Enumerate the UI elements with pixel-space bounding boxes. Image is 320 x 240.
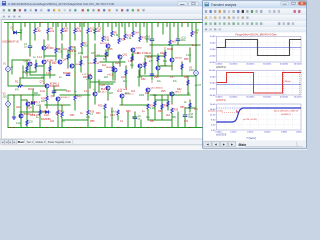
- svg-text:KD29: KD29: [28, 88, 35, 91]
- svg-text:0.800s: 0.800s: [281, 132, 287, 134]
- wire col119: [118, 23, 120, 39]
- transistor Q16: [106, 86, 110, 90]
- wire stub: [157, 23, 159, 27]
- wire R6 feed: [55, 23, 57, 49]
- wire: [189, 48, 191, 62]
- wire bias a: [12, 59, 30, 61]
- wire col170: [169, 23, 171, 41]
- svg-text:220: 220: [50, 120, 55, 123]
- wire C1 bottom: [29, 48, 31, 56]
- wire bias b: [11, 60, 13, 74]
- wire: [36, 65, 44, 67]
- transistor Q14: [138, 64, 142, 68]
- wire link14-21: [14, 94, 21, 96]
- svg-text:10.000m: 10.000m: [229, 64, 237, 66]
- svg-text:6mA: 6mA: [134, 52, 139, 55]
- wire col21 low: [20, 95, 22, 128]
- capacitor CF3: [150, 74, 154, 76]
- svg-text:2N5401: 2N5401: [175, 57, 183, 59]
- wire R7 feed: [81, 23, 83, 43]
- wire col141 low: [140, 120, 142, 128]
- wire stub: [107, 23, 109, 27]
- wire R7 out: [81, 48, 83, 55]
- wire Q7 e: [46, 88, 48, 96]
- wire stub 33: [32, 90, 34, 95]
- svg-text:R36: R36: [184, 76, 189, 79]
- transient analysis window frame: [203, 1, 307, 148]
- transistor Q2: [42, 46, 46, 50]
- wire R33 out: [171, 114, 173, 128]
- resistor R29: [169, 40, 171, 45]
- transient toolbar row 3: [203, 21, 306, 27]
- capacitor C1: [28, 46, 32, 48]
- wire col155 low2: [154, 108, 156, 120]
- svg-text:+OUT: +OUT: [195, 84, 202, 87]
- schematic canvas: [2, 20, 203, 145]
- svg-text:(t=774, 4.132): (t=774, 4.132): [243, 118, 257, 121]
- svg-text:Freqq=1kHz=100.0%,_BW RG=5 Ohm: Freqq=1kHz=100.0%,_BW RG=5 Ohm: [235, 33, 276, 36]
- main toolbar row 1: [0, 7, 307, 14]
- wire R19 out: [87, 116, 89, 128]
- svg-text:►: ►: [13, 141, 16, 144]
- transistor Q15: [170, 58, 174, 62]
- wire C16 b: [151, 41, 153, 45]
- resistor RF5: [80, 60, 82, 66]
- wire V5 out: [195, 75, 197, 90]
- wire Q19 e: [171, 96, 173, 104]
- svg-text:2k2: 2k2: [166, 114, 171, 117]
- wire: [100, 61, 120, 63]
- transistor QL1: [26, 102, 30, 106]
- wire C10 b: [184, 117, 186, 128]
- svg-text:1k2: 1k2: [63, 48, 68, 51]
- svg-text:4.13: 4.13: [110, 114, 115, 117]
- svg-text:v(OUT)/5: v(OUT)/5: [216, 134, 227, 137]
- wire R13 feed: [94, 23, 96, 29]
- svg-text:►: ►: [222, 143, 225, 147]
- resistor RL4: [189, 103, 191, 109]
- resistor RF16: [154, 101, 156, 107]
- wire R17 out: [61, 118, 63, 128]
- wire stub: [173, 23, 175, 27]
- resistor RF11: [144, 62, 146, 68]
- wire R18 out: [74, 101, 76, 111]
- svg-text:60448: 60448: [136, 47, 143, 49]
- svg-text:Main: Main: [239, 143, 247, 147]
- wire V1 feed: [7, 23, 9, 67]
- wire C11 a: [177, 23, 179, 39]
- svg-text:+C: +C: [187, 93, 190, 95]
- resistor R4: [47, 28, 49, 34]
- resistor RF10: [131, 56, 133, 61]
- svg-text:BU406_1: BU406_1: [31, 102, 41, 104]
- wire in vert: [19, 78, 21, 86]
- svg-text:►: ►: [230, 143, 233, 147]
- wire: [53, 86, 55, 96]
- svg-text:1mA: 1mA: [40, 90, 45, 93]
- voltage source V1: [6, 67, 11, 72]
- svg-text:+50: +50: [37, 31, 42, 33]
- wire mid i: [20, 77, 44, 79]
- resistor R28: [191, 31, 193, 36]
- svg-text:2N5: 2N5: [161, 90, 166, 93]
- wire low c: [150, 94, 190, 96]
- resistor RF13: [164, 52, 166, 57]
- wire C16 a: [151, 23, 153, 39]
- resistor RF9: [125, 70, 127, 76]
- wire mid f: [145, 55, 165, 57]
- wire: [125, 66, 127, 88]
- resistor R16: [57, 110, 59, 116]
- wire: [49, 62, 51, 78]
- svg-text:Main: Main: [18, 140, 25, 144]
- resistor R7: [81, 42, 83, 47]
- diode D3: [32, 102, 35, 105]
- resistor RF3: [49, 66, 51, 72]
- svg-text:0.22: 0.22: [44, 114, 49, 117]
- wire low d: [45, 104, 70, 106]
- wire R9 feed: [69, 23, 71, 47]
- wire Q16 e: [107, 90, 109, 100]
- svg-text:0.000: 0.000: [210, 49, 216, 51]
- wire col178 low: [177, 112, 179, 128]
- plot 1 box: [217, 36, 302, 62]
- wire R8 out: [74, 34, 76, 40]
- capacitor C9: [133, 117, 137, 119]
- wire: [22, 66, 24, 78]
- wire Q15 e: [171, 62, 173, 70]
- resistor RF1: [26, 66, 28, 72]
- wire R4 out: [47, 34, 49, 40]
- svg-text:R13: R13: [97, 27, 102, 30]
- svg-text:0.400s: 0.400s: [247, 132, 253, 134]
- svg-text:-5.000: -5.000: [209, 89, 216, 91]
- wire Q11 e: [94, 96, 96, 104]
- transistor QL2: [19, 114, 23, 118]
- wire stub: [135, 23, 137, 27]
- wire low h: [62, 119, 88, 121]
- resistor R23: [124, 34, 126, 39]
- resistor R33: [171, 108, 173, 114]
- wire stub: [143, 23, 145, 27]
- resistor RF17: [167, 101, 169, 107]
- transistor Q13: [113, 68, 117, 72]
- wire Q20 e: [89, 79, 91, 88]
- wire: [55, 53, 57, 60]
- wire col112 low: [111, 108, 113, 128]
- wire mid b: [30, 74, 55, 76]
- wire link21-27: [21, 99, 27, 101]
- wire: [74, 47, 76, 88]
- svg-text:1mA: 1mA: [16, 122, 21, 125]
- svg-text:220u: 220u: [181, 40, 187, 42]
- transistor Q21: [156, 66, 160, 70]
- svg-text:230: 230: [3, 96, 8, 99]
- wire mid h: [140, 75, 196, 77]
- svg-text:+C: +C: [190, 117, 193, 119]
- svg-text:BUL2: BUL2: [101, 88, 108, 91]
- svg-text:220: 220: [29, 122, 34, 124]
- wire Q21 c: [157, 56, 159, 66]
- svg-text:v(OUT1): v(OUT1): [216, 66, 226, 69]
- svg-text:100n: 100n: [78, 53, 84, 55]
- svg-text:0.1R: 0.1R: [150, 108, 155, 110]
- wire stub: [128, 23, 130, 27]
- wire R32 out: [147, 110, 149, 121]
- main app icon: [2, 1, 6, 5]
- wire: [112, 62, 114, 80]
- resistor R13: [94, 28, 96, 34]
- wire mid e: [100, 61, 125, 63]
- wire R12 out: [87, 34, 89, 40]
- wire: [23, 71, 36, 73]
- svg-text:-2.000: -2.000: [209, 55, 216, 57]
- wire: [164, 50, 166, 66]
- svg-text:20.00: 20.00: [210, 104, 216, 106]
- wire R10 feed: [61, 23, 63, 29]
- svg-text:4.13: 4.13: [46, 72, 51, 75]
- svg-text:40.000m: 40.000m: [280, 64, 288, 66]
- transistor Q17: [120, 94, 124, 98]
- wire V1 out: [7, 71, 9, 86]
- wire node IN: [8, 85, 20, 87]
- wire col21: [20, 23, 22, 41]
- capacitor CF1: [66, 74, 70, 76]
- wire: [167, 96, 169, 110]
- resistor R9: [69, 46, 71, 51]
- svg-text:R9 1k: R9 1k: [70, 50, 77, 53]
- wire stub: [39, 23, 41, 27]
- svg-text:R40: R40: [66, 90, 71, 93]
- wire bottom supply rail: [9, 127, 202, 129]
- main toolbar row 2: [0, 14, 307, 20]
- wire R31 out: [117, 116, 119, 121]
- wire Q15 c: [171, 45, 173, 58]
- svg-text:R42: R42: [177, 88, 182, 91]
- resistor R26: [132, 31, 134, 36]
- transistor Q3: [42, 60, 46, 64]
- wire stub: [121, 23, 123, 27]
- svg-text:R52: R52: [96, 112, 101, 115]
- wire col112: [111, 23, 113, 32]
- wire R17 feed: [61, 105, 63, 112]
- svg-text:2N5: 2N5: [108, 48, 113, 51]
- transient toolbar row 1: [203, 8, 306, 14]
- svg-text:R33: R33: [174, 110, 179, 112]
- wire stub: [65, 23, 67, 27]
- wire stub: [115, 23, 117, 27]
- wire R10 out: [61, 34, 63, 40]
- resistor RF4: [67, 54, 69, 59]
- plot 2 red cursor: [298, 70, 300, 95]
- wire R18 feed: [74, 88, 76, 95]
- svg-text:30.000m: 30.000m: [263, 64, 271, 66]
- transient toolbar row 4: [203, 27, 306, 32]
- wire: [154, 96, 156, 108]
- svg-text:KD2908S: KD2908S: [50, 86, 60, 88]
- resistor R14: [46, 96, 48, 102]
- svg-text:R35: R35: [184, 58, 189, 61]
- svg-text:5.000: 5.000: [210, 76, 216, 78]
- wire Q8 e: [107, 48, 109, 56]
- wire R4 feed: [47, 23, 49, 29]
- wire V2 bottom: [7, 106, 9, 127]
- resistor R24: [118, 38, 120, 43]
- wire: [94, 44, 96, 92]
- diode D1: [14, 31, 17, 34]
- resistor R10: [61, 28, 63, 34]
- wire Q14 e: [139, 68, 141, 76]
- svg-text:40.000m: 40.000m: [280, 97, 288, 99]
- transistor Q20: [88, 75, 92, 79]
- wire: [44, 55, 56, 57]
- wire C9 a: [134, 112, 136, 117]
- wire R16 out: [57, 116, 59, 128]
- svg-text:Power Supplies: Power Supplies: [48, 141, 65, 144]
- svg-text:R4 6: R4 6: [77, 97, 83, 99]
- svg-text:2.000: 2.000: [210, 43, 216, 45]
- resistor R1: [18, 85, 24, 87]
- capacitor C16: [150, 39, 154, 41]
- wire: [131, 54, 133, 68]
- wire C1 top: [29, 23, 31, 46]
- wire R2 out: [34, 34, 36, 40]
- main window background: [0, 0, 307, 150]
- wire R19 feed: [87, 104, 89, 110]
- wire col147: [146, 23, 148, 43]
- wire top supply rail: [5, 22, 203, 24]
- wire mid d: [95, 55, 108, 57]
- svg-text:Units: Units: [65, 141, 71, 144]
- wire D1 out: [17, 32, 21, 34]
- capacitor C10: [183, 115, 187, 117]
- svg-text:10.000m: 10.000m: [229, 97, 237, 99]
- resistor R11: [139, 36, 141, 41]
- wire stub: [79, 23, 81, 27]
- wire col125: [124, 23, 126, 35]
- svg-text:+C: +C: [117, 55, 120, 57]
- wire Q13 e: [114, 72, 116, 80]
- wire low a: [12, 94, 40, 96]
- plot 3 plateau dashed: [217, 107, 243, 109]
- svg-text:R53: R53: [126, 110, 131, 113]
- svg-text:R25: R25: [115, 62, 120, 65]
- resistor RF2: [35, 63, 37, 69]
- resistor R12: [87, 28, 89, 34]
- wire D3 a: [32, 95, 34, 102]
- wire: [157, 54, 159, 66]
- wire: [158, 65, 172, 67]
- svg-text:C:\MC10\DATA\Amico\MagicVMbSd_: C:\MC10\DATA\Amico\MagicVMbSd_db ISV\Mag…: [8, 2, 115, 6]
- transistor Q19: [170, 92, 174, 96]
- svg-text:0.000: 0.000: [210, 83, 216, 85]
- transistor Q6: [70, 64, 74, 68]
- wire: [187, 76, 189, 95]
- transistor Q10: [118, 55, 122, 59]
- svg-text:100n: 100n: [132, 117, 138, 119]
- svg-text:Transient analysis: Transient analysis: [211, 3, 237, 7]
- capacitor CF2: [98, 70, 102, 72]
- wire: [181, 62, 183, 76]
- main caption buttons: [178, 2, 199, 6]
- svg-text:KD29: KD29: [167, 48, 174, 51]
- svg-text:R54: R54: [158, 110, 163, 113]
- transistor Q18: [146, 88, 150, 92]
- wire Q3 e: [43, 64, 45, 70]
- wire: [144, 58, 146, 74]
- svg-text:20.000m: 20.000m: [246, 97, 254, 99]
- svg-text:BC546_1: BC546_1: [61, 97, 71, 99]
- plot 1 black trace v(OUT1): [217, 40, 302, 56]
- wire low e: [120, 104, 148, 106]
- wire col190 low: [189, 100, 191, 112]
- wire R8 feed: [74, 23, 76, 29]
- svg-text:20.000m: 20.000m: [246, 64, 254, 66]
- svg-text:+C: +C: [52, 93, 55, 95]
- resistor R21: [102, 36, 104, 41]
- wire stub: [24, 23, 26, 27]
- plot 3 box: [217, 104, 302, 130]
- wire Q5 e: [29, 66, 31, 75]
- svg-text:30.000m: 30.000m: [263, 97, 271, 99]
- wire col40 low: [39, 105, 41, 128]
- svg-text:1k4: 1k4: [102, 64, 107, 67]
- resistor R31: [117, 110, 119, 116]
- wire stub: [83, 23, 85, 27]
- junction dots on top rail: [7, 22, 8, 23]
- wire: [80, 56, 82, 72]
- wire: [26, 60, 28, 76]
- wire R9 out: [69, 52, 71, 59]
- plot client area: [203, 32, 305, 140]
- wire R1-Q7: [24, 85, 45, 87]
- resistor RF14: [181, 64, 183, 70]
- svg-text:►: ►: [9, 141, 12, 144]
- capacitor C11: [176, 39, 180, 41]
- resistor R2: [34, 28, 36, 34]
- svg-text:KD2988-97+D: KD2988-97+D: [3, 40, 19, 44]
- wire col128 low: [127, 112, 129, 128]
- svg-text:1k2: 1k2: [131, 90, 136, 93]
- resistor RF8: [112, 66, 114, 72]
- wire V2 top: [7, 95, 9, 102]
- svg-text:BC546: BC546: [63, 72, 71, 75]
- wire: [151, 45, 153, 80]
- wire low i: [148, 119, 172, 121]
- schematic page tab bar: [0, 139, 203, 145]
- wire low f: [20, 111, 50, 113]
- plot 2 red trace v(OUT1): [217, 73, 302, 94]
- wire: [54, 89, 66, 91]
- resistor R5: [111, 31, 113, 36]
- wire: [67, 50, 69, 68]
- svg-text:R24: R24: [121, 40, 126, 42]
- plot 3 blue trace v(OUT)/5: [217, 108, 302, 122]
- wire Q2 c: [43, 40, 45, 46]
- wire: [43, 64, 45, 84]
- wire Q2 e: [43, 50, 45, 58]
- svg-text:0.1R: 0.1R: [186, 55, 191, 57]
- svg-text:12.00: 12.00: [210, 114, 216, 116]
- svg-text:R10: R10: [64, 27, 69, 30]
- svg-text:R57: R57: [150, 120, 155, 123]
- wire stub: [166, 23, 168, 27]
- svg-text:BD139_2: BD139_2: [100, 43, 110, 45]
- svg-text:48.0m: 48.0m: [285, 81, 291, 83]
- transient caption buttons: [281, 2, 306, 5]
- wire: [99, 83, 113, 85]
- wire col192: [191, 23, 193, 32]
